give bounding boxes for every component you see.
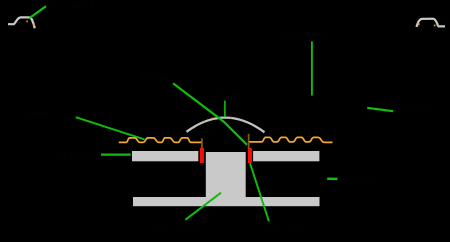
svg-text:former: former <box>140 71 172 83</box>
svg-text:surround: surround <box>49 0 92 12</box>
top plate right <box>253 151 319 161</box>
svg-text:magnet: magnet <box>341 174 378 186</box>
leader line: basket <box>367 108 393 111</box>
svg-text:diaphragm: diaphragm <box>279 29 331 41</box>
lead wire dot right surround base right <box>434 25 436 27</box>
lead wire dot left surround base <box>33 24 35 26</box>
back plate <box>133 197 320 206</box>
former left (dark brown tube) <box>201 138 203 148</box>
svg-text:basket: basket <box>397 103 429 115</box>
leader line: dust cap <box>224 101 226 117</box>
pole piece <box>206 152 246 206</box>
leader line: spider <box>76 117 145 139</box>
surround left (gray roll) <box>8 17 35 28</box>
magnet ring (black fill, invisible) <box>133 162 198 198</box>
svg-text:spider: spider <box>22 108 52 120</box>
basket frame (black, invisible) <box>8 24 445 197</box>
cone / diaphragm (black, invisible on black background) <box>35 27 417 138</box>
leader line: voice coil <box>250 163 269 221</box>
leader line: magnet <box>327 177 337 180</box>
leader line: surround <box>30 6 46 18</box>
svg-text:pole piece: pole piece <box>148 222 198 234</box>
leader line: former <box>173 83 247 145</box>
lead wire dot dust cap right <box>230 117 232 119</box>
leader line: diaphragm (cone) <box>311 41 313 95</box>
lead wire dot dust cap mid-left <box>212 118 214 120</box>
leader line: pole piece <box>185 193 221 220</box>
lead wire dot dust cap left <box>204 121 206 123</box>
lead wire dot left surround <box>26 21 28 23</box>
svg-text:voice coil: voice coil <box>258 222 303 234</box>
voice coil winding left (orange zigzag) <box>119 138 202 143</box>
voice coil in gap left (red) <box>200 148 204 163</box>
surround right (gray roll) <box>417 19 446 27</box>
lead wire dot right surround base left <box>418 23 420 25</box>
voice coil winding right (orange zigzag) <box>249 137 332 142</box>
svg-text:dust cap: dust cap <box>203 88 245 100</box>
svg-text:top plate: top plate <box>52 149 94 161</box>
former right (dark brown tube) <box>248 134 250 149</box>
leader line: top plate <box>101 153 131 155</box>
voice coil in gap right (red) <box>248 148 252 163</box>
top plate left <box>132 151 198 161</box>
dust cap (gray arc) <box>187 118 265 133</box>
